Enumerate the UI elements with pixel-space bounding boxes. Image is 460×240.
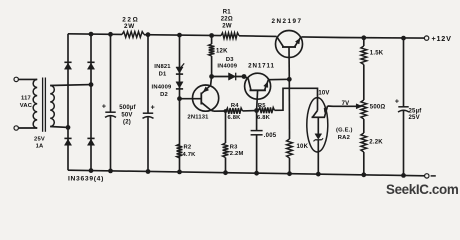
svg-text:2N1711: 2N1711 [248,63,275,70]
svg-text:IN3639(4): IN3639(4) [68,175,104,182]
svg-text:R5: R5 [258,103,266,109]
svg-text:2.2K: 2.2K [369,139,383,145]
svg-text:IN4009: IN4009 [217,64,237,70]
svg-text:2W: 2W [124,23,135,30]
svg-text:10V: 10V [318,91,329,97]
svg-text:RA2: RA2 [338,135,350,141]
svg-text:VAC: VAC [20,103,33,109]
svg-text:10K: 10K [297,144,309,150]
svg-text:(G.E.): (G.E.) [336,128,353,134]
svg-text:.005: .005 [264,133,277,139]
svg-text:117: 117 [21,96,31,102]
svg-text:1.5K: 1.5K [370,50,384,56]
svg-text:(2): (2) [123,119,131,125]
svg-text:2N1131: 2N1131 [187,115,209,121]
svg-text:12K: 12K [216,48,228,54]
svg-text:IN821: IN821 [154,64,171,70]
svg-text:25V: 25V [409,115,420,121]
svg-text:SeekIC.com: SeekIC.com [386,182,459,197]
svg-text:R4: R4 [231,103,239,109]
svg-text:25µf: 25µf [409,108,423,114]
svg-text:D3: D3 [226,57,234,63]
svg-text:R2: R2 [184,145,192,151]
svg-text:2N2197: 2N2197 [271,18,302,25]
svg-text:+12V: +12V [432,34,452,43]
svg-text:4.7K: 4.7K [183,152,197,158]
svg-text:+: + [151,104,155,111]
svg-text:1A: 1A [36,143,44,149]
svg-text:D2: D2 [160,92,168,98]
svg-text:D1: D1 [159,72,167,78]
svg-text:2.2M: 2.2M [230,151,244,157]
svg-text:500Ω: 500Ω [370,105,386,111]
svg-text:+: + [102,103,106,110]
svg-text:R3: R3 [230,144,238,150]
svg-text:IN4009: IN4009 [152,84,172,90]
svg-text:50V: 50V [121,112,132,118]
svg-text:500µf: 500µf [119,105,136,111]
svg-text:2W: 2W [222,23,232,29]
svg-text:6.8K: 6.8K [257,115,271,121]
svg-text:22Ω: 22Ω [221,17,233,23]
svg-text:+: + [395,98,399,105]
svg-text:R1: R1 [223,10,232,16]
svg-text:6.8K: 6.8K [227,115,241,121]
svg-text:25V: 25V [34,136,45,142]
